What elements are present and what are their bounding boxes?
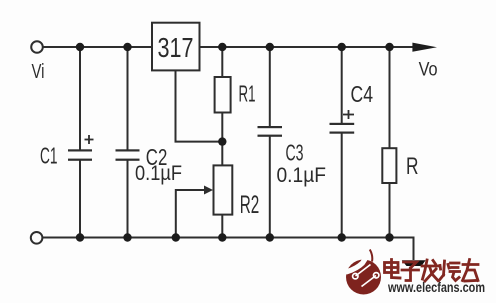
svg-text:0.1µF: 0.1µF [277,164,327,187]
capacitor C1 top plate [68,149,92,151]
capacitor C4 polarity plus [343,110,354,119]
node dot bottom wiper [172,233,180,241]
node dot top R1 [218,43,226,51]
wire 317 ADJ pin [176,71,223,142]
wire R1 top [221,47,223,77]
capacitor C4 top plate [330,123,355,125]
svg-text:C1: C1 [40,143,58,169]
terminal bottom-left circle [31,232,43,244]
node dot bottom R2 [218,233,226,241]
node dot bottom C3 [266,233,274,241]
node dot bottom C1 [76,233,84,241]
output arrow [412,43,437,52]
svg-text:C4: C4 [351,81,374,107]
node dot top C1 [76,43,84,51]
svg-text:317: 317 [158,32,194,63]
wire C4 top [341,47,343,123]
wire R1 bottom to R2 top [221,113,223,166]
node dot ADJ junction [218,137,226,145]
node dot top R load [385,43,393,51]
wire C3 bottom [269,137,271,238]
wire top rail [43,46,152,48]
potentiometer R2 body [214,165,233,214]
wire C2 bottom [127,160,129,238]
svg-text:Vi: Vi [32,61,45,83]
watermark logo circle [346,249,381,295]
svg-text:R2: R2 [240,191,259,219]
wire ground drop [390,238,414,261]
node dot top C4 [338,43,346,51]
svg-text:www.elecfans.com: www.elecfans.com [387,279,485,295]
svg-text:0.1µF: 0.1µF [135,162,182,185]
wire bottom rail [43,237,414,239]
node dot bottom C2 [123,233,131,241]
wire C4 bottom [341,134,343,238]
svg-text:Vo: Vo [419,60,438,81]
wire R load top [389,47,391,148]
node dot top C2 [123,43,131,51]
capacitor C2 top plate [116,149,140,151]
wire top rail right of 317 [199,46,424,48]
wire C2 top [127,47,129,150]
ground symbol [402,260,426,266]
wire C1 top [79,47,81,150]
capacitor C4 bottom plate [330,132,355,134]
wire R2 wiper [176,190,206,238]
wire C1 bottom [79,160,81,238]
wire R2 bottom [221,215,223,238]
wire C3 top [269,47,271,127]
svg-text:C3: C3 [286,139,304,165]
svg-text:R1: R1 [239,81,256,107]
capacitor C1 bottom plate [68,159,92,161]
terminal Vi circle [31,41,43,53]
node dot bottom C4 [338,233,346,241]
node dot bottom R load [385,233,393,241]
resistor R1 body [215,77,231,113]
wire R load bottom [389,183,391,238]
node dot top C3 [266,43,274,51]
svg-text:R: R [406,153,419,180]
capacitor C3 bottom plate [258,135,283,137]
capacitor C3 top plate [258,126,283,128]
resistor R load body [382,148,396,183]
capacitor C1 polarity plus [85,135,94,144]
potentiometer R2 wiper arrowhead [204,186,213,195]
capacitor C2 bottom plate [116,159,140,161]
regulator U1 317 box [152,23,200,71]
